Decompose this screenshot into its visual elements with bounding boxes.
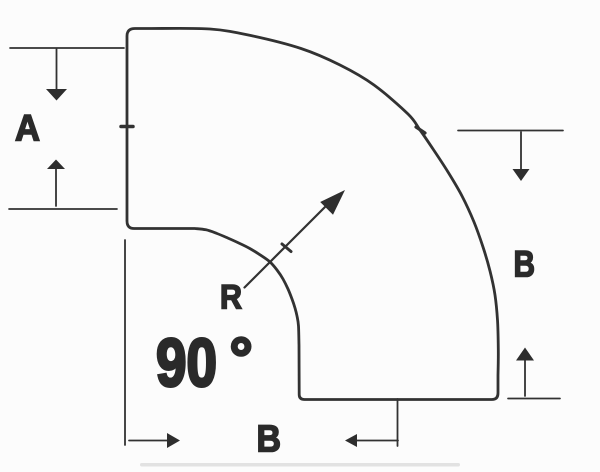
scan streak at bottom: [140, 463, 460, 467]
svg-text:R: R: [220, 279, 242, 317]
dim B bottom: right arrow shaft: [129, 440, 168, 442]
svg-text:°: °: [230, 326, 253, 391]
arrowhead B bottom left-pointing: [345, 434, 357, 447]
arrowhead B bottom right-pointing: [167, 433, 180, 448]
tick on left edge of body: [121, 125, 133, 129]
dim A: top line: [10, 47, 124, 49]
radius R leader line: [245, 205, 328, 288]
dim B right: up arrow shaft: [524, 360, 526, 396]
dim B right: bottom line: [508, 398, 560, 400]
arrowhead B right up: [516, 348, 534, 361]
dim A: up arrow shaft: [55, 168, 57, 206]
arrowhead B right down: [513, 169, 530, 181]
arrowhead A up: [47, 160, 65, 170]
arrowhead R: [320, 190, 345, 215]
dim B bottom: left extension line: [124, 240, 126, 445]
dim B bottom: right extension line: [397, 399, 399, 446]
svg-text:90: 90: [156, 325, 217, 401]
radius R tick: [282, 244, 291, 252]
dim B bottom: left arrow shaft: [357, 440, 398, 442]
tick on outer arc: [416, 127, 425, 133]
dim B right: down arrow shaft: [520, 132, 522, 170]
dim A: down arrow shaft: [56, 49, 58, 90]
dim B right: top line: [458, 130, 563, 132]
svg-text:B: B: [257, 419, 282, 461]
svg-text:B: B: [514, 244, 536, 285]
dim A: bottom line: [9, 208, 117, 210]
elbow body outline: [127, 28, 498, 399]
svg-text:A: A: [15, 108, 40, 149]
arrowhead A down: [46, 89, 67, 101]
